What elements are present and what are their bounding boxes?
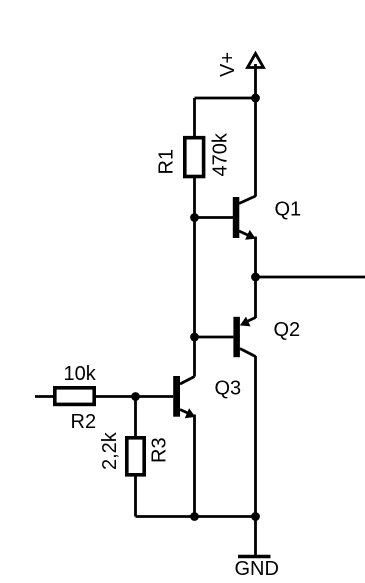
- svg-text:Q2: Q2: [274, 319, 301, 341]
- wire Q2 base: [195, 336, 234, 339]
- wire Q3 emitter: [193, 415, 196, 517]
- svg-text:Q3: Q3: [215, 378, 242, 400]
- junction Q3 emitter/rail: [190, 512, 199, 521]
- svg-text:V+: V+: [217, 52, 239, 77]
- wire Q2 collector to rail: [254, 356, 257, 517]
- wire Q2 emitter: [254, 277, 257, 318]
- svg-text:R3: R3: [149, 437, 171, 463]
- wire R1 bottom lead: [193, 176, 196, 218]
- junction R2/R3/Q3: [131, 392, 140, 401]
- svg-text:Q1: Q1: [275, 199, 302, 221]
- svg-text:470k: 470k: [210, 132, 232, 176]
- svg-text:10k: 10k: [64, 363, 97, 385]
- junction R1/Q1 base: [190, 213, 199, 222]
- wire output: [256, 276, 365, 279]
- wire R3 bottom lead: [134, 474, 137, 517]
- wire input stub: [35, 395, 54, 398]
- wire top rail: [195, 97, 256, 100]
- transistor Q2: [233, 317, 255, 358]
- wire GND stub: [254, 517, 257, 556]
- svg-text:GND: GND: [235, 558, 279, 580]
- wire base bus: [193, 218, 196, 338]
- junction GND rail: [251, 512, 260, 521]
- junction at V+ rail: [251, 94, 260, 103]
- junction output node: [251, 273, 260, 282]
- power symbol V+: [248, 54, 264, 99]
- wire Q3 collector: [193, 337, 196, 377]
- resistor R2: [55, 388, 94, 405]
- resistor R1: [185, 138, 204, 177]
- wire R2 to Q3 base: [95, 395, 173, 398]
- transistor Q1: [233, 196, 256, 240]
- svg-text:R1: R1: [156, 149, 178, 175]
- ground: [238, 555, 271, 559]
- wire Q1 collector: [254, 98, 257, 197]
- transistor Q3: [173, 376, 195, 418]
- wire Q1 base: [195, 216, 234, 219]
- svg-text:R2: R2: [71, 411, 97, 433]
- svg-text:2,2k: 2,2k: [99, 431, 121, 470]
- resistor R3: [127, 438, 144, 475]
- wire R3 top lead: [134, 397, 137, 438]
- wire Q1 emitter to output: [254, 237, 257, 278]
- junction Q2 base: [190, 333, 199, 342]
- wire R1 top lead: [193, 98, 196, 137]
- wire bottom rail: [136, 515, 256, 518]
